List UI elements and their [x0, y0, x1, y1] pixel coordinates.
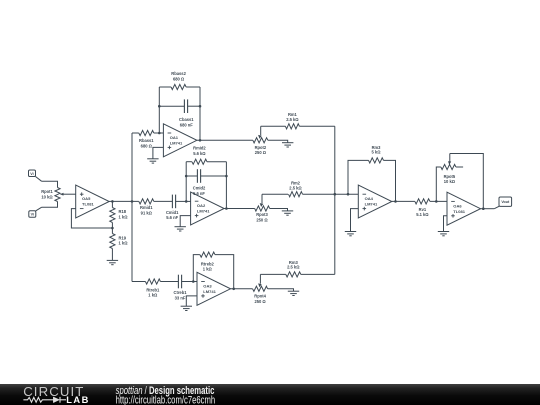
junction Cbass1 left tee [158, 105, 161, 108]
wire flag to Vout [494, 206, 499, 209]
wire mix bus to OA4 - [335, 193, 359, 195]
svg-text:2.5 kΩ: 2.5 kΩ [286, 117, 299, 122]
junction OA1 output [199, 139, 202, 142]
ground (OA1 +) [147, 159, 158, 163]
svg-text:OA5: OA5 [82, 196, 91, 201]
svg-text:680 Ω: 680 Ω [173, 77, 185, 82]
wire Rbass2 to right vertical [186, 86, 200, 88]
ground (OA4 +) [345, 232, 356, 236]
wire Rpot2 wiper to Rm1 [261, 125, 286, 127]
svg-text:1 kΩ: 1 kΩ [119, 215, 129, 220]
svg-text:5.1 kΩ: 5.1 kΩ [416, 212, 429, 217]
ground (Rpot2) [282, 143, 293, 147]
resistor Rtreb2 1 k&#937; [200, 252, 215, 257]
wire Rpot4 wiper to Rm3 [260, 273, 285, 275]
wire to Cmid2 [186, 175, 197, 177]
svg-text:2.5 kΩ: 2.5 kΩ [289, 186, 302, 191]
svg-text:Rbass1: Rbass1 [139, 138, 154, 143]
resistor Rtreb1 1 k&#937; [145, 279, 160, 284]
svg-text:5.6 nF: 5.6 nF [166, 215, 178, 220]
wire R19 to ground [111, 249, 113, 261]
junction mixing node [334, 193, 337, 196]
wire Cmid1 to OA2 - [176, 200, 191, 202]
wire Rm3 to mix bus [301, 273, 335, 275]
wire Cmid2 to right vertical [201, 175, 227, 177]
svg-text:Vi: Vi [31, 213, 34, 217]
op-amp OA2 LM741 [191, 192, 225, 225]
potentiometer Rpot3 250 &#937; [255, 194, 270, 211]
wire mixing bus vertical [334, 126, 336, 274]
junction OA3 output [232, 288, 235, 291]
ground (OA3 +) [181, 306, 192, 310]
wire OA4 output to Rv1 [392, 200, 415, 202]
svg-text:1 kΩ: 1 kΩ [203, 267, 213, 272]
capacitor Cmid1 5.6 nF [172, 195, 175, 209]
svg-text:10 kΩ: 10 kΩ [41, 194, 53, 199]
svg-text:5.6 nF: 5.6 nF [193, 191, 205, 196]
wire Cbass1 to right vertical [188, 105, 200, 107]
wire Rpot3 wiper to Rm2 [262, 193, 288, 195]
svg-text:OA1: OA1 [170, 135, 179, 140]
capacitor Cmid2 5.6 nF [197, 169, 200, 183]
wire Rtreb2 to OA3 output [215, 255, 234, 289]
wire Rv1 to OA6 - [430, 200, 447, 202]
svg-text:LM741: LM741 [203, 289, 216, 294]
resistor R18 1 k&#937; [110, 208, 115, 223]
svg-text:250 Ω: 250 Ω [256, 217, 268, 222]
junction OA6 output [482, 207, 485, 210]
resistor Rbass1 680 &#937; [139, 130, 154, 135]
svg-text:680 Ω: 680 Ω [141, 144, 153, 149]
svg-text:Rpot2: Rpot2 [255, 145, 267, 150]
resistor Rbass2 680 &#937; [171, 84, 186, 89]
resistor Rm3 5 k&#937; (feedback) [369, 158, 384, 163]
junction OA2 inverting node [185, 200, 188, 203]
wire Rpot3 right to ground [270, 209, 288, 211]
svg-text:http://circuitlab.com/c7e6cmh: http://circuitlab.com/c7e6cmh [116, 394, 216, 405]
wire OA2 output to Rpot3 [224, 208, 255, 210]
op-amp OA5 TL081 [76, 185, 110, 218]
potentiometer Rpot4 250 &#937; [253, 274, 268, 291]
wire bus to Rbass1 [132, 132, 139, 134]
wire Rm1 to mix bus [299, 125, 334, 127]
svg-text:2.5 kΩ: 2.5 kΩ [287, 265, 300, 270]
resistor Rm1 2.5 k&#937; [285, 124, 299, 129]
junction OA6 inverting node [435, 200, 438, 203]
potentiometer Rpot5 10 k&#937; [441, 154, 463, 170]
svg-text:Rbass2: Rbass2 [171, 71, 186, 76]
junction OA4 output [394, 200, 397, 203]
svg-text:1 kΩ: 1 kΩ [148, 293, 158, 298]
wire Rpot2 right to ground [268, 140, 288, 142]
svg-text:250 Ω: 250 Ω [254, 299, 266, 304]
ground (Rpot3) [282, 211, 293, 215]
capacitor Cbass1 680 nF [184, 99, 187, 113]
wire to Rpot1 top [42, 181, 58, 187]
wire Rpot4 right to ground [268, 289, 294, 291]
wire Rpot1 wiper to OA5 + [63, 193, 76, 195]
op-amp OA4 LM741 [358, 185, 392, 218]
resistor Rmid2 5.6 k&#937; [192, 159, 207, 164]
wire feedback up to Rm3 (5k) [348, 160, 369, 194]
svg-text:R18: R18 [119, 209, 127, 214]
wire feedback right vertical (bass) [199, 87, 201, 140]
svg-text:TL081: TL081 [82, 202, 94, 207]
svg-text:OA6: OA6 [453, 203, 462, 208]
junction R18/R19/feedback [111, 227, 114, 230]
svg-text:Rmid1: Rmid1 [140, 205, 153, 210]
junction OA3 inverting node [192, 280, 195, 283]
wire Rmid1 to Cmid1 [154, 200, 173, 202]
wire to R19 [111, 228, 113, 234]
wire Rtreb1 to Ctreb1 [160, 281, 178, 283]
CircuitLab logo resistor-diode art [23, 397, 66, 403]
op-amp OA3 LM741 [197, 272, 231, 305]
svg-text:OA3: OA3 [203, 284, 212, 289]
wire Rmid2 to right vertical [207, 161, 227, 163]
wire OA5 output to bus [109, 200, 139, 202]
capacitor Ctreb1 33 nF [178, 275, 181, 289]
wire to Cbass1 [159, 105, 184, 107]
resistor Rm2 2.5 k&#937; [289, 192, 303, 197]
wire OA1 + to ground [153, 147, 164, 158]
resistor Rmid1 91 k&#937; [139, 199, 154, 204]
wire to R18 [111, 201, 113, 207]
svg-text:250 Ω: 250 Ω [255, 150, 267, 155]
svg-text:LM741: LM741 [197, 209, 210, 214]
ground (below R19) [107, 260, 118, 264]
svg-text:Vi: Vi [30, 172, 33, 176]
svg-text:OA2: OA2 [197, 203, 206, 208]
node Vi (bottom terminal) [29, 211, 36, 218]
wire OA2 + to ground [180, 216, 190, 227]
junction OA2 output [225, 207, 228, 210]
svg-text:Cbass1: Cbass1 [179, 117, 194, 122]
node Vout [499, 197, 512, 206]
resistor Rv1 5.1 k&#937; [415, 199, 430, 204]
wire feedback left vertical (bass) [158, 87, 160, 133]
svg-text:LAB: LAB [66, 395, 90, 405]
svg-text:33 nF: 33 nF [175, 295, 186, 300]
junction OA5 output / R18 [111, 200, 114, 203]
svg-text:10 kΩ: 10 kΩ [444, 179, 456, 184]
junction OA4 inverting node [347, 193, 350, 196]
wire Rbass1 to OA1 - [154, 132, 164, 134]
wire R18 to node [111, 223, 113, 229]
ground (Rpot4) [288, 291, 299, 295]
wire feedback left vertical (mid) [185, 162, 187, 202]
wire bus to Rtreb1 [132, 281, 145, 283]
wire Rpot1 bottom [42, 202, 58, 208]
junction OA1 inverting node [158, 132, 161, 135]
wire Rpot5 wiper to OA6 output [450, 154, 484, 209]
wire OA4 + to ground [351, 209, 359, 232]
junction Cbass1 right tee [199, 105, 202, 108]
svg-text:TL081: TL081 [453, 209, 465, 214]
svg-text:5.6 kΩ: 5.6 kΩ [193, 151, 206, 156]
ground (OA6 +) [438, 232, 449, 236]
svg-text:LM741: LM741 [365, 202, 378, 207]
resistor Rm3 2.5 k&#937; [286, 272, 301, 277]
potentiometer Rpot2 250 &#937; [253, 126, 268, 143]
svg-text:LM741: LM741 [170, 140, 183, 145]
wire OA3 + to ground [186, 296, 197, 306]
svg-text:91 kΩ: 91 kΩ [141, 210, 153, 215]
op-amp OA1 LM741 [163, 124, 197, 157]
svg-text:Rpot1: Rpot1 [41, 189, 53, 194]
wire to Rbass2 [159, 86, 171, 88]
wire up to Rpot5 left terminal [436, 167, 441, 201]
ground (OA2 +) [175, 227, 186, 231]
wire Ctreb1 to OA3 - [182, 281, 197, 283]
svg-text:680 nF: 680 nF [180, 122, 193, 127]
wire feedback right vertical (mid) [225, 162, 227, 209]
wire OA3 output to Rpot4 [231, 288, 253, 290]
resistor R19 1 k&#937; [110, 234, 115, 249]
svg-text:1 kΩ: 1 kΩ [119, 241, 129, 246]
wire input bus vertical [131, 133, 133, 282]
wire OA6 output [481, 208, 495, 210]
wire Vi flag to input [36, 177, 42, 182]
wire OA5 feedback to divider [71, 209, 112, 228]
junction bus / mid branch [131, 200, 134, 203]
junction Cmid2 right tee [225, 175, 228, 178]
svg-text:OA4: OA4 [365, 196, 374, 201]
footer bar [0, 384, 540, 405]
wire to Rmid2 [186, 161, 192, 163]
svg-text:Vout: Vout [501, 200, 510, 204]
svg-text:R19: R19 [119, 235, 127, 240]
wire feedback up to Rtreb2 [193, 255, 200, 282]
node Vi (top terminal) [29, 170, 36, 177]
wire OA1 output to Rpot2 [197, 139, 253, 141]
potentiometer Rpot1 10 k&#937; [55, 188, 64, 202]
wire Rm2 to mix bus [303, 193, 335, 195]
wire flag to Vi bottom [36, 207, 42, 211]
op-amp OA6 TL081 [447, 192, 481, 225]
wire OA6 + to ground [444, 216, 448, 232]
junction Cmid2 left tee [185, 175, 188, 178]
svg-text:5 kΩ: 5 kΩ [372, 150, 382, 155]
wire Rm3 to OA4 output [384, 160, 396, 201]
